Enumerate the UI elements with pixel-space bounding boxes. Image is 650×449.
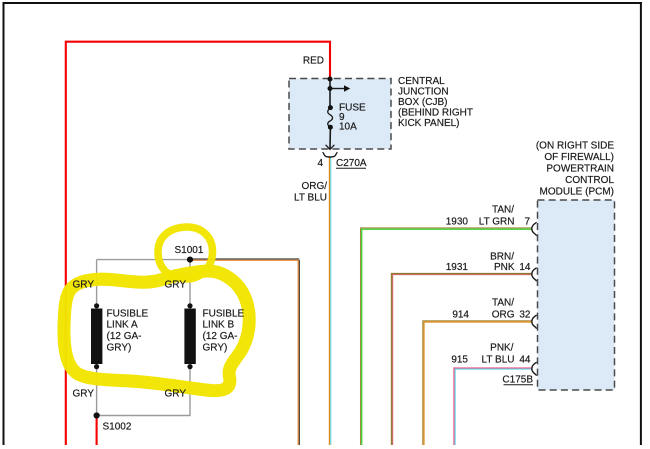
page border frame [3,2,642,4]
svg-text:GRY: GRY [165,280,187,291]
wire gray left down to fusible link A [96,260,98,304]
node dot top of CJB [328,77,333,82]
svg-text:C270A: C270A [336,158,367,169]
svg-text:(12 GA-: (12 GA- [203,331,238,342]
svg-text:FUSIBLE: FUSIBLE [107,308,149,319]
wire 914 tan/org [423,321,533,445]
svg-text:CONTROL: CONTROL [565,175,614,186]
svg-text:POWERTRAIN: POWERTRAIN [546,164,614,175]
svg-text:ORG/: ORG/ [301,181,327,192]
svg-text:915: 915 [451,355,468,366]
down arrow at CJB exit [326,145,335,150]
wire 1931 brn/pnk [391,273,532,445]
svg-text:1931: 1931 [446,262,469,273]
wire 915 pnk/lt blu [454,368,533,445]
svg-text:GRY): GRY) [203,342,228,353]
svg-text:BOX (CJB): BOX (CJB) [398,97,447,108]
svg-text:LT GRN: LT GRN [479,217,515,228]
wire black/orange from S1001 to right and down [192,259,299,445]
connector pin 32 arc [532,315,537,329]
svg-text:LT BLU: LT BLU [482,355,515,366]
svg-text:(BEHIND RIGHT: (BEHIND RIGHT [398,108,473,119]
svg-text:GRY): GRY) [107,342,132,353]
svg-text:TAN/: TAN/ [492,298,514,309]
highlight blob around fusible links [64,271,249,391]
svg-text:PNK/: PNK/ [490,343,514,354]
connector pin 7 arc [532,222,537,236]
svg-text:MODULE (PCM): MODULE (PCM) [540,187,614,198]
svg-text:JUNCTION: JUNCTION [398,87,449,98]
svg-text:GRY: GRY [73,389,95,400]
wire org/lt blu from fuse down [329,156,330,445]
node dot junction with right arrow [328,86,333,91]
svg-text:LINK A: LINK A [107,320,138,331]
svg-text:(ON RIGHT SIDE: (ON RIGHT SIDE [536,141,614,152]
svg-text:32: 32 [519,310,531,321]
svg-text:OF FIREWALL): OF FIREWALL) [544,152,614,163]
node S1001 dot [187,257,193,263]
svg-text:14: 14 [519,262,531,273]
svg-text:S1001: S1001 [175,245,204,256]
wire gray link A bottom to S1002 [96,368,98,416]
svg-text:1930: 1930 [446,217,469,228]
svg-text:CENTRAL: CENTRAL [398,76,445,87]
wire gray S1001 horizontal [97,259,188,261]
svg-text:C175B: C175B [502,375,533,386]
svg-text:ORG: ORG [492,310,515,321]
svg-text:TAN/: TAN/ [492,205,514,216]
wire 1930 tan/lt grn [361,228,533,445]
svg-text:FUSIBLE: FUSIBLE [203,308,245,319]
svg-text:LINK B: LINK B [203,320,235,331]
fuse F9 squiggle [328,105,333,110]
fusible link B body [187,303,192,308]
svg-text:GRY: GRY [165,389,187,400]
node S1002 dot [94,412,100,418]
svg-text:LT BLU: LT BLU [294,193,327,204]
wire gray link B bottom to S1002 horizontal [97,368,190,416]
svg-text:KICK PANEL): KICK PANEL) [398,118,460,129]
PCM box [538,200,615,390]
svg-text:PNK: PNK [494,262,515,273]
wire red main: horizontal top + left vertical [66,42,330,445]
wire gray S1001 down to fusible link B [189,261,191,304]
svg-text:S1002: S1002 [103,422,132,433]
highlight circle around S1001 [158,227,213,279]
fusible link A body [94,303,99,308]
svg-text:RED: RED [303,56,324,67]
svg-text:44: 44 [519,355,531,366]
connector C270A cup symbol [323,152,338,157]
svg-text:10A: 10A [339,122,357,133]
connector pin 14 arc [532,268,537,282]
connector pin 44 arc [532,362,537,376]
svg-text:GRY: GRY [73,280,95,291]
svg-text:7: 7 [524,217,530,228]
wire red below S1002 [96,416,98,446]
svg-text:BRN/: BRN/ [490,252,514,263]
svg-text:914: 914 [452,310,469,321]
svg-text:4: 4 [317,158,323,169]
svg-text:(12 GA-: (12 GA- [107,331,142,342]
arrow to right inside CJB [330,88,345,90]
CJB internal wire vertical [329,79,331,108]
CJB box (central junction box) [289,79,391,150]
